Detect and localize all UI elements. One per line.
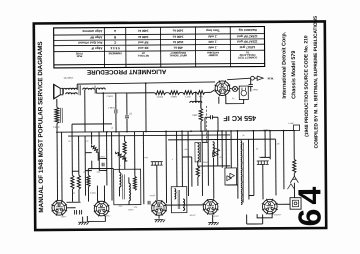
wire tie2 bbox=[226, 184, 237, 186]
resistor bbox=[77, 175, 80, 189]
svg-text:50L6: 50L6 bbox=[208, 207, 214, 209]
wire tie bbox=[72, 170, 78, 172]
svg-text:1 MEG: 1 MEG bbox=[192, 113, 199, 115]
svg-text:POSE: POSE bbox=[75, 52, 82, 55]
wire long bbox=[111, 132, 113, 201]
wire bbox=[176, 131, 178, 186]
wire bbox=[71, 136, 73, 175]
wire bbox=[246, 215, 248, 224]
wire bbox=[200, 121, 202, 131]
wire bbox=[213, 158, 215, 199]
IFT1 primary bbox=[119, 172, 121, 187]
svg-text:50L6GT: 50L6GT bbox=[212, 216, 220, 218]
wire bbox=[217, 117, 219, 131]
wire bbox=[134, 132, 136, 177]
wire bbox=[103, 186, 105, 202]
wire bbox=[124, 154, 126, 169]
wire bbox=[88, 167, 113, 169]
wire bbox=[115, 93, 117, 109]
svg-text:Radiated sig.: Radiated sig. bbox=[238, 28, 257, 32]
svg-text:2 MEG: 2 MEG bbox=[171, 97, 178, 99]
svg-text:.1 mfd: .1 mfd bbox=[208, 45, 217, 49]
svg-text:12SQ7: 12SQ7 bbox=[156, 209, 164, 211]
wire bbox=[201, 131, 203, 196]
wire bbox=[236, 131, 238, 199]
svg-text:AT: AT bbox=[141, 51, 145, 54]
wire bbox=[97, 152, 99, 160]
wire bbox=[293, 173, 295, 176]
wire tie bbox=[202, 141, 208, 143]
resistor filter bbox=[293, 159, 296, 173]
osc coil top bbox=[190, 101, 202, 103]
wire bbox=[91, 132, 93, 145]
IF transformer 1 bbox=[114, 169, 141, 205]
svg-text:RF end: RF end bbox=[138, 46, 148, 50]
wire below t5 bbox=[247, 223, 263, 225]
wire bbox=[62, 90, 64, 94]
wire bbox=[78, 189, 80, 201]
ground 2 bbox=[208, 222, 219, 225]
resistor bbox=[155, 91, 166, 95]
svg-text:International Detroit Corp.: International Detroit Corp. bbox=[281, 31, 287, 98]
svg-text:455 kc: 455 kc bbox=[173, 46, 183, 50]
pilot lamp bbox=[232, 86, 237, 91]
wire bbox=[118, 187, 120, 196]
speaker bbox=[54, 84, 61, 99]
wire bbox=[197, 161, 199, 166]
svg-text:OSC: OSC bbox=[144, 157, 149, 159]
svg-text:455 KC IF: 455 KC IF bbox=[223, 114, 256, 123]
svg-text:1 AMP: 1 AMP bbox=[288, 122, 294, 125]
wire bbox=[187, 131, 189, 196]
wire bbox=[165, 131, 168, 203]
wire t3-t4 bbox=[166, 204, 202, 206]
svg-text:12SQ7: 12SQ7 bbox=[128, 209, 134, 211]
wire bbox=[126, 119, 128, 132]
svg-text:OSC: OSC bbox=[119, 206, 124, 208]
svg-text:.05: .05 bbox=[68, 141, 71, 143]
svg-text:12SA7: 12SA7 bbox=[61, 215, 67, 218]
wire long left drop bbox=[56, 123, 59, 200]
antenna lead-in bbox=[227, 78, 251, 79]
wire bbox=[217, 131, 219, 166]
svg-text:.0001: .0001 bbox=[184, 149, 189, 151]
svg-text:35Z5: 35Z5 bbox=[220, 89, 226, 91]
diode arrows bbox=[213, 152, 219, 157]
wire bbox=[218, 97, 220, 104]
svg-text:220: 220 bbox=[72, 193, 75, 195]
wire bbox=[200, 92, 202, 108]
wire bbox=[221, 131, 223, 168]
IFT1 secondary bbox=[129, 183, 131, 201]
wire tie bbox=[182, 156, 191, 158]
resistor bbox=[169, 91, 180, 95]
wire tie bbox=[260, 156, 270, 158]
resistor osc grid bbox=[123, 141, 126, 154]
svg-text:1 MFD: 1 MFD bbox=[263, 128, 270, 130]
page border frame bbox=[34, 21, 326, 230]
wire t1-t2 bbox=[67, 201, 81, 203]
wire bbox=[126, 93, 128, 115]
svg-text:12SA7: 12SA7 bbox=[56, 207, 63, 210]
svg-text:GANG: GANG bbox=[150, 194, 156, 197]
power plug bbox=[290, 198, 301, 210]
wire bbox=[264, 131, 266, 158]
svg-text:Thru loop: Thru loop bbox=[206, 28, 220, 32]
wire t5-plug bbox=[277, 203, 290, 205]
svg-text:.1 mfd: .1 mfd bbox=[208, 34, 217, 38]
svg-text:.02: .02 bbox=[86, 141, 89, 143]
svg-text:35Z5: 35Z5 bbox=[267, 207, 273, 209]
wire bbox=[250, 87, 252, 92]
wire pilot-plug bbox=[238, 88, 240, 90]
tube V3 12SQ7 det bbox=[151, 200, 167, 216]
wire long right of IFT1 bbox=[142, 132, 145, 205]
wire tie bbox=[85, 152, 91, 154]
svg-text:14,560: 14,560 bbox=[157, 97, 164, 99]
resistor diag 2 bbox=[115, 152, 127, 162]
wire bbox=[252, 131, 254, 196]
wire bbox=[118, 169, 120, 172]
gang tuning capacitor 1 bbox=[151, 162, 163, 166]
output transformer T1 bbox=[63, 88, 77, 90]
ground 3 bbox=[155, 220, 166, 223]
capacitor bbox=[102, 163, 104, 167]
plug symbol bbox=[257, 76, 263, 80]
wire bbox=[91, 161, 93, 169]
svg-text:12SA7 RF grid: 12SA7 RF grid bbox=[237, 40, 258, 44]
wire bbox=[200, 103, 202, 108]
svg-text:35Z5GT: 35Z5GT bbox=[274, 214, 282, 216]
capacitor pair bbox=[75, 210, 77, 215]
wire bbox=[71, 124, 73, 136]
wire drop 3 bbox=[145, 83, 147, 131]
svg-text:3 MEG: 3 MEG bbox=[90, 193, 96, 195]
wire bbox=[71, 189, 73, 201]
wire bbox=[78, 136, 80, 175]
wire bbox=[205, 116, 210, 118]
wire bbox=[128, 201, 130, 205]
wire tie bbox=[99, 158, 106, 160]
wire bbox=[248, 139, 250, 199]
svg-text:Rot. End of band: Rot. End of band bbox=[78, 41, 102, 45]
capacitor near V3 bbox=[148, 201, 150, 205]
resistor R bias bbox=[71, 175, 74, 189]
wire loop under tube5 bbox=[257, 214, 272, 218]
svg-text:5 6 3 4: 5 6 3 4 bbox=[110, 46, 120, 50]
wire bbox=[95, 90, 97, 94]
tube V2 12SK7 IF amp bbox=[94, 201, 110, 217]
wire spk to field bbox=[56, 99, 58, 107]
svg-text:1400 kc: 1400 kc bbox=[137, 29, 148, 33]
capacitor pair b bbox=[80, 210, 82, 215]
wire tie bbox=[85, 170, 91, 172]
wire bbox=[128, 177, 130, 183]
fuse box bbox=[294, 125, 300, 131]
wire bbox=[87, 187, 89, 202]
wire bbox=[191, 157, 193, 187]
wire bbox=[181, 131, 183, 186]
resistor bbox=[183, 91, 194, 95]
winding 2 bbox=[213, 142, 215, 157]
svg-text:TRIMMERS: TRIMMERS bbox=[108, 51, 122, 54]
wire to plug bbox=[293, 183, 295, 198]
svg-text:AVC: AVC bbox=[219, 156, 223, 159]
wire drop 1 bbox=[84, 90, 86, 132]
filter capacitors bbox=[290, 176, 298, 183]
svg-text:.05: .05 bbox=[83, 172, 86, 174]
svg-text:1,200: 1,200 bbox=[185, 96, 191, 98]
svg-text:COMPILED BY M. N. BEITMAN, SUP: COMPILED BY M. N. BEITMAN, SUPREME PUBLI… bbox=[313, 15, 320, 148]
wire bbox=[254, 77, 257, 79]
svg-text:150: 150 bbox=[277, 143, 280, 145]
wire bbox=[67, 207, 76, 209]
line cord plug bbox=[239, 86, 248, 100]
bus H1 bbox=[72, 123, 112, 125]
tube V5 bbox=[262, 199, 278, 215]
candohm winding bbox=[241, 141, 243, 205]
svg-text:1400 kc: 1400 kc bbox=[172, 35, 183, 39]
wire bbox=[96, 186, 98, 202]
wire bbox=[158, 215, 160, 218]
svg-text:.1 mfd: .1 mfd bbox=[208, 40, 217, 44]
svg-text:12SK7: 12SK7 bbox=[98, 209, 105, 211]
svg-text:RF end: RF end bbox=[138, 40, 148, 44]
wire bbox=[204, 117, 206, 131]
wire bbox=[207, 131, 209, 186]
alignment table (printed upside down) bbox=[54, 27, 265, 68]
wire chain to coil bbox=[195, 92, 197, 102]
wire bbox=[269, 131, 271, 160]
svg-text:.25 MEG: .25 MEG bbox=[97, 157, 105, 159]
wire bbox=[61, 132, 63, 201]
wire bbox=[262, 214, 264, 223]
wire bbox=[106, 132, 108, 186]
wire bbox=[82, 217, 84, 222]
resistor in can bbox=[133, 176, 136, 190]
wire gang1 down bbox=[156, 165, 158, 200]
wire tie bbox=[198, 165, 230, 167]
svg-text:(1948 PRODUCTION SOURCE CODE N: (1948 PRODUCTION SOURCE CODE No. 210 bbox=[303, 35, 310, 137]
wire bbox=[118, 132, 120, 170]
svg-text:250M: 250M bbox=[203, 162, 208, 164]
svg-text:ALIGNMENT PROCEDURE: ALIGNMENT PROCEDURE bbox=[87, 68, 166, 76]
svg-text:455 KC: 455 KC bbox=[189, 215, 196, 217]
wire bbox=[212, 215, 214, 223]
wire bbox=[76, 84, 78, 90]
IFT2 primary bbox=[174, 189, 176, 200]
svg-text:2 MFD: 2 MFD bbox=[107, 96, 114, 98]
wire bbox=[293, 131, 295, 160]
svg-text:1400 kc: 1400 kc bbox=[137, 35, 148, 39]
svg-text:.01: .01 bbox=[111, 127, 114, 129]
wire bbox=[98, 132, 100, 171]
svg-text:10M: 10M bbox=[96, 172, 100, 174]
capacitor 2MFD bbox=[115, 109, 117, 113]
svg-text:Chassis Model 579: Chassis Model 579 bbox=[291, 51, 297, 99]
svg-text:P.L.: P.L. bbox=[232, 98, 236, 100]
svg-text:MANUAL OF 1948 MOST POPULAR SE: MANUAL OF 1948 MOST POPULAR SERVICE DIAG… bbox=[37, 41, 45, 212]
dashed trimmer line bbox=[205, 106, 207, 144]
ground 1 bbox=[78, 222, 89, 225]
wire plug return bbox=[226, 96, 244, 104]
wire bbox=[212, 116, 217, 118]
wire loop under tube2 bbox=[87, 216, 105, 222]
svg-text:35: 35 bbox=[256, 148, 258, 150]
wire tie bbox=[249, 194, 254, 196]
wire bbox=[115, 113, 117, 131]
IF transformer 2 bbox=[171, 187, 187, 213]
svg-text:1620 kc: 1620 kc bbox=[172, 40, 183, 44]
resistor bbox=[197, 91, 205, 95]
svg-text:12SK7 RF grid: 12SK7 RF grid bbox=[237, 34, 258, 38]
capacitor .05 bbox=[210, 115, 212, 119]
svg-text:12SK7: 12SK7 bbox=[105, 215, 111, 217]
gang tuning capacitor 2 bbox=[257, 161, 269, 165]
svg-text:SPKR: SPKR bbox=[253, 89, 259, 91]
wire to resistors bbox=[96, 92, 154, 94]
tube V6 35Z5 rectifier bbox=[214, 80, 230, 96]
svg-text:VOL: VOL bbox=[134, 207, 138, 209]
svg-text:OUTPUT: OUTPUT bbox=[64, 77, 74, 80]
svg-text:Align antenna: Align antenna bbox=[82, 29, 102, 33]
bus H2 (main) bbox=[56, 130, 295, 132]
svg-text:FREQUENCY: FREQUENCY bbox=[170, 51, 186, 54]
wire bbox=[230, 131, 232, 168]
capacitor ant bbox=[249, 85, 253, 87]
diode box bbox=[225, 168, 237, 185]
resistor avc bbox=[196, 166, 199, 177]
wire H4 bbox=[168, 138, 275, 141]
resistor diag bbox=[91, 145, 98, 152]
choke winding bbox=[198, 143, 200, 161]
wire bbox=[283, 131, 285, 190]
B+ top bus bbox=[77, 82, 215, 84]
svg-text:TO: TO bbox=[246, 51, 250, 54]
wire gang2 down bbox=[262, 164, 264, 199]
junction dots bbox=[106, 131, 108, 133]
wire bbox=[84, 136, 86, 196]
field coil winding bbox=[55, 107, 59, 123]
wire bbox=[250, 78, 252, 84]
wire bbox=[124, 136, 126, 142]
IFT2 secondary bbox=[183, 199, 185, 211]
svg-text:Align IF: Align IF bbox=[91, 46, 102, 50]
svg-text:1400 kc: 1400 kc bbox=[172, 29, 183, 33]
svg-text:1 MEG: 1 MEG bbox=[108, 107, 115, 109]
bus H3 bbox=[68, 135, 230, 136]
svg-text:.05: .05 bbox=[242, 135, 245, 137]
wire to pilot bbox=[230, 87, 233, 90]
wire drop 2 bbox=[102, 93, 104, 132]
tube V1 12SA7 converter bbox=[51, 200, 67, 216]
resistor 1 MEG bbox=[199, 108, 202, 121]
wire bbox=[197, 177, 199, 186]
capacitor bbox=[125, 116, 129, 118]
svg-text:ANTENNA: ANTENNA bbox=[207, 51, 219, 54]
svg-text:12SA7 grid: 12SA7 grid bbox=[239, 45, 255, 49]
tube V4 50L6 output bbox=[203, 199, 219, 215]
wire bbox=[225, 131, 227, 168]
wire bbox=[87, 169, 89, 175]
svg-text:M.W.: M.W. bbox=[268, 76, 274, 80]
wire tie bbox=[99, 170, 106, 172]
resistor bbox=[87, 175, 90, 187]
svg-text:.1: .1 bbox=[171, 159, 173, 161]
wire bbox=[275, 139, 277, 195]
svg-text:Align RF: Align RF bbox=[90, 35, 103, 39]
